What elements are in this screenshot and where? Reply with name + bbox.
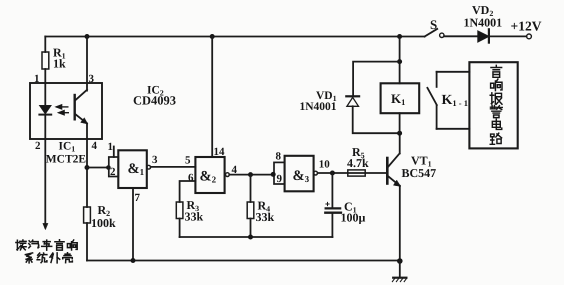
svg-text:100µ: 100µ xyxy=(341,211,366,225)
opto-coupler IC1 MCT2E box xyxy=(30,83,102,139)
svg-text:1k: 1k xyxy=(53,57,66,71)
VT1 collector xyxy=(388,133,399,166)
wire gate1 output to gate2 pin5 xyxy=(151,166,196,168)
node junction VD1 top xyxy=(397,59,402,64)
alarm box char 报 xyxy=(490,93,502,104)
svg-text:S: S xyxy=(430,17,437,32)
svg-text:4.7k: 4.7k xyxy=(347,156,369,170)
wire VD1 bottom branch xyxy=(353,106,400,133)
opto light arrow 1 xyxy=(57,106,68,108)
gate &1 output bubble xyxy=(147,165,151,169)
svg-text:&1: &1 xyxy=(128,161,145,177)
node junction on rail (pin 14 feed) xyxy=(210,34,215,39)
svg-text:+12V: +12V xyxy=(511,19,542,34)
gate &1 pin1 stub xyxy=(113,147,115,158)
node junction VD1 bottom xyxy=(397,131,402,136)
node junction pin4 / gate input xyxy=(85,165,90,170)
diode VD2 triangle xyxy=(478,31,489,42)
svg-text:7: 7 xyxy=(135,192,141,204)
chassis label char 外 xyxy=(50,253,60,263)
diode VD2 cathode bar xyxy=(488,29,490,42)
svg-text:1N4001: 1N4001 xyxy=(300,101,337,113)
gate &1 main box xyxy=(118,150,147,188)
wire K1 bottom to VT1 collector xyxy=(399,113,401,133)
chassis label char 音 xyxy=(55,240,64,250)
node junction on rail (opto collector) xyxy=(85,34,90,39)
relay contact K1-1 xyxy=(427,72,469,129)
alarm box char 警 xyxy=(490,106,502,118)
gate &3 input box xyxy=(274,162,285,184)
svg-text:33k: 33k xyxy=(185,210,204,224)
wire RC common rail xyxy=(180,236,333,238)
chassis label char 系 xyxy=(25,253,32,263)
chassis label char 响 xyxy=(67,240,77,250)
opto LED triangle xyxy=(40,106,51,114)
wire S to VD2 xyxy=(444,35,478,37)
svg-text:2: 2 xyxy=(35,140,41,152)
svg-text:CD4093: CD4093 xyxy=(133,94,176,108)
alarm box char 电 xyxy=(492,119,501,129)
gate &1 pin7 wire to ground rail xyxy=(132,188,134,261)
svg-text:1: 1 xyxy=(34,73,40,85)
wire opto pin2 to chassis arrow xyxy=(44,139,46,228)
svg-text:5: 5 xyxy=(185,155,191,167)
node junction on rail (relay branch) xyxy=(397,34,402,39)
gate &3 output bubble xyxy=(314,171,318,175)
diode VD1 cathode bar xyxy=(346,95,359,97)
gate &2 pin6 wire to R3 xyxy=(180,181,196,202)
resistor R1 xyxy=(42,37,66,84)
VT1 emitter xyxy=(388,177,399,262)
svg-text:K1 - 1: K1 - 1 xyxy=(442,93,468,108)
svg-text:BC547: BC547 xyxy=(402,166,437,180)
svg-text:33k: 33k xyxy=(256,210,275,224)
opto LED cathode wire xyxy=(44,115,46,139)
chassis label char 壳 xyxy=(63,253,73,263)
wire VD2 to +12V terminal xyxy=(489,35,527,37)
gate &3 main box xyxy=(285,156,314,192)
chassis label char 车 xyxy=(42,240,52,250)
chassis label char 汽 xyxy=(29,240,39,248)
opto phototransistor collector xyxy=(75,37,87,101)
opto LED anode wire xyxy=(44,83,46,106)
gate &2 pin14 wire from rail xyxy=(211,37,213,158)
transistor VT1 BC547 base bar xyxy=(386,158,389,184)
wire gate3 output to VT1 base xyxy=(318,172,387,174)
gate &1 (IC2a NAND) input box xyxy=(109,157,119,177)
gate &2 main box xyxy=(195,157,224,193)
opto phototransistor base bar xyxy=(73,95,75,119)
node junction C1 tap xyxy=(330,171,335,176)
svg-text:14: 14 xyxy=(214,146,226,158)
switch S xyxy=(425,29,438,37)
node junction emitter to rail xyxy=(397,258,403,264)
svg-text:&2: &2 xyxy=(200,169,217,185)
svg-text:6: 6 xyxy=(188,172,194,184)
svg-text:3: 3 xyxy=(152,154,158,166)
opto phototransistor emitter xyxy=(75,114,87,139)
CJK glyph groups appended below xyxy=(16,65,502,263)
+12V terminal circle xyxy=(527,34,532,39)
wire gate2 output to gate3 input xyxy=(229,174,273,176)
wire VD1 top branch xyxy=(353,62,400,96)
svg-text:&3: &3 xyxy=(293,168,310,184)
ground symbol xyxy=(392,261,406,282)
svg-text:2: 2 xyxy=(110,166,116,178)
resistor R2 xyxy=(84,203,116,261)
svg-text:3: 3 xyxy=(89,73,95,85)
gate &2 output bubble xyxy=(226,173,230,177)
wire bottom ground rail xyxy=(87,260,400,262)
resistor R3 xyxy=(176,198,203,237)
node junction R4 bottom xyxy=(248,235,253,240)
relay K1 coil box xyxy=(381,83,420,113)
svg-text:8: 8 xyxy=(276,151,282,163)
svg-text:K1: K1 xyxy=(391,91,405,107)
opto LED cathode bar xyxy=(39,114,51,116)
alarm box char 路 xyxy=(490,133,501,144)
alarm circuit box xyxy=(469,62,517,148)
alarm box char 音 xyxy=(491,65,502,77)
wire relay branch vertical xyxy=(399,37,401,84)
node junction gate3 tied inputs xyxy=(271,172,276,177)
svg-text:4: 4 xyxy=(92,140,98,152)
wire pin4 node to gate 1 input xyxy=(87,167,109,169)
chassis label char 统 xyxy=(37,253,47,263)
svg-text:1: 1 xyxy=(108,141,114,153)
wire top supply rail xyxy=(45,36,424,38)
diode VD1 triangle xyxy=(347,97,359,106)
opto light arrow 2 xyxy=(60,112,69,114)
capacitor C1 xyxy=(325,173,365,237)
svg-text:100k: 100k xyxy=(91,216,116,230)
svg-text:MCT2E: MCT2E xyxy=(46,154,87,166)
svg-text:1N4001: 1N4001 xyxy=(464,16,503,30)
alarm box char 响 xyxy=(491,79,502,91)
chassis label char 接 xyxy=(16,240,26,250)
svg-text:IC1: IC1 xyxy=(59,141,76,154)
svg-text:10: 10 xyxy=(319,159,331,171)
wire opto pin4 down to R2 and ground rail xyxy=(86,139,88,207)
resistor R4 xyxy=(247,175,274,237)
svg-text:9: 9 xyxy=(277,173,283,185)
node junction R4 tap xyxy=(248,172,253,177)
resistor R5 xyxy=(347,145,369,176)
node junction pin7 to rail xyxy=(131,258,136,263)
